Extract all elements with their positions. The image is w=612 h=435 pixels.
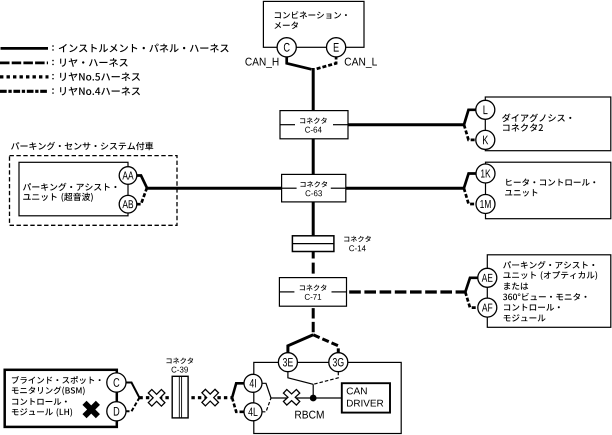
pin AF <box>478 298 497 317</box>
combination meter label <box>274 11 346 29</box>
wire C-63 to connector C-14 <box>312 200 315 240</box>
pin AB <box>119 195 137 213</box>
connector C-14 label <box>344 236 371 252</box>
wire BSM to RBCM (rear No.5, dotted) <box>139 396 232 399</box>
label CAN_H <box>245 58 278 68</box>
parking assist unit label <box>23 183 116 202</box>
diagnosis connector 2 box <box>485 97 611 151</box>
connector C-63 label <box>300 181 327 196</box>
connector C-71 left tick <box>279 291 294 293</box>
connector C-64 right tick <box>333 124 348 126</box>
pin AE <box>478 268 497 287</box>
RBCM internal: pin 3G lead (dashed) <box>313 372 338 385</box>
RBCM internal: vertical to junction <box>312 384 314 398</box>
connector C-71 right tick <box>332 291 347 293</box>
legend label: rear harness <box>52 58 127 67</box>
branch to pin L <box>464 110 478 125</box>
wire C-71 to RBCM split (dashed) <box>312 305 315 335</box>
branch split to pin 3E <box>288 335 313 354</box>
label CAN DRIVER <box>347 387 384 406</box>
diagnosis connector 2 label <box>502 114 571 132</box>
legend line: instrument panel harness (solid) <box>1 47 49 50</box>
connector C-64 label <box>300 117 327 132</box>
branch to pin AE <box>465 278 478 292</box>
branch split to pin 4L (dashed) <box>232 398 245 412</box>
branch split to pin 3G (dashed) <box>313 335 338 354</box>
connector C-64 left tick <box>280 124 295 126</box>
filled X mark in BSM box <box>85 403 98 416</box>
connector C-71 label <box>300 285 327 300</box>
connector C-64 box <box>280 111 348 139</box>
branch pin AA to split <box>137 176 147 188</box>
heater control unit box <box>486 162 611 219</box>
branch split to pin 4I <box>232 383 245 397</box>
heater control unit label <box>505 178 595 196</box>
branch pin C to split <box>126 383 140 398</box>
pin D (BSM) <box>107 402 126 421</box>
connector C-39 box <box>172 376 188 418</box>
wire CAN_H from pin C to junction <box>287 56 312 70</box>
pin K <box>476 130 495 149</box>
junction node <box>310 395 317 402</box>
pin 4L <box>244 403 262 421</box>
connector C-14 mid line <box>292 243 334 245</box>
pin C (BSM) <box>107 373 126 392</box>
legend label: rear No.5 harness <box>52 72 140 81</box>
wire C-64 to C-63 <box>312 137 315 176</box>
connector C-63 left tick <box>282 187 297 189</box>
pin 3G <box>329 353 348 372</box>
pin 3E <box>278 353 297 372</box>
connector C-63 box <box>282 174 346 202</box>
wire C-64 to diagnosis connector split <box>348 123 464 126</box>
pin 1M <box>476 195 495 214</box>
splice X mark right of C-39 <box>203 391 217 405</box>
BSM control module box <box>5 370 117 427</box>
BSM control module label <box>12 376 101 417</box>
combination meter box <box>263 1 364 47</box>
RBCM box <box>254 362 401 433</box>
legend line: rear No.4 harness (dash-dot) <box>0 90 49 93</box>
CAN driver box <box>342 383 390 412</box>
branch to pin AF (dashed) <box>465 292 478 308</box>
legend line: rear harness (dashed) <box>0 62 48 65</box>
branch to pin 1M (dashed) <box>464 188 477 204</box>
parking sensor system dashed enclosure <box>10 156 178 226</box>
connector C-71 box <box>279 278 346 307</box>
RBCM internal: pin 4L lead (dashed) <box>262 398 271 412</box>
branch to pin K (dashed) <box>464 125 478 140</box>
legend label: rear No.4 harness <box>52 87 140 96</box>
wire C-63 to heater control split <box>346 187 464 190</box>
pin E (CAN_L) <box>327 38 346 57</box>
label: with parking sensor system <box>11 142 153 150</box>
connector C-39 label <box>166 358 193 373</box>
wire C-71 to optical unit split (dashed) <box>347 290 466 293</box>
branch pin D to split (dashed) <box>126 398 140 412</box>
legend line: rear No.5 harness (dotted) <box>0 75 49 78</box>
wire CAN_L from pin E to junction (dashed) <box>315 56 336 70</box>
connector C-14 box <box>292 236 334 252</box>
RBCM internal: horizontal line to CAN driver <box>271 397 343 399</box>
pin C (CAN_H) <box>277 38 296 57</box>
parking assist optical box <box>487 255 611 327</box>
wire junction to connector C-64 <box>312 68 315 112</box>
legend label: instrument panel harness <box>52 44 228 53</box>
splice X mark left of C-39 <box>150 391 164 405</box>
pin 1K <box>476 164 495 183</box>
RBCM internal: pin 4I lead <box>262 383 271 398</box>
wire parking assist to connector C-63 <box>146 187 283 190</box>
pin 4I <box>244 374 262 392</box>
connector C-39 inner lines <box>179 376 181 418</box>
branch to pin 1K <box>464 174 477 189</box>
parking assist unit (ultrasonic) box <box>19 162 128 216</box>
no-connection X inside RBCM <box>285 391 299 404</box>
pin AA <box>119 167 137 185</box>
wire C-14 to C-71 (dashed) <box>312 252 315 280</box>
label CAN_L <box>345 58 377 68</box>
label RBCM <box>295 411 323 419</box>
parking assist optical label <box>503 261 597 322</box>
pin L <box>476 100 495 119</box>
branch pin AB to split (dashed) <box>137 188 147 204</box>
connector C-63 right tick <box>331 187 346 189</box>
RBCM internal: pin 3E lead <box>288 372 313 385</box>
